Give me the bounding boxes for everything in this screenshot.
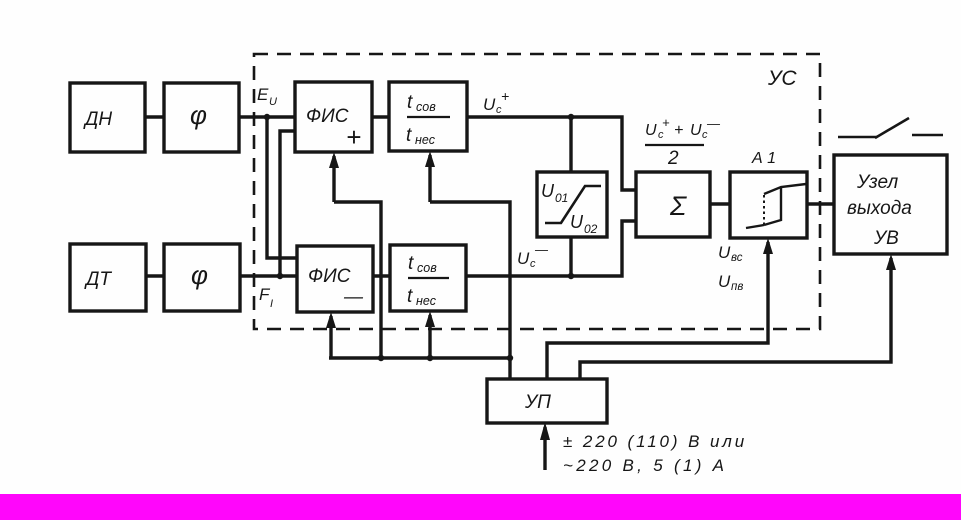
block ДН bbox=[70, 83, 145, 152]
label U_пв bbox=[718, 272, 743, 293]
svg-text:U: U bbox=[269, 96, 277, 108]
node U_c+ tap bbox=[568, 114, 574, 120]
svg-text:U: U bbox=[570, 212, 584, 232]
svg-text:УП: УП bbox=[524, 392, 551, 413]
svg-text:ДТ: ДТ bbox=[84, 269, 112, 290]
svg-text:t: t bbox=[406, 125, 412, 146]
svg-text:ФИС: ФИС bbox=[308, 266, 351, 287]
label U_вс bbox=[718, 243, 743, 264]
svg-text:сов: сов bbox=[416, 100, 436, 114]
svg-text:U: U bbox=[718, 243, 731, 262]
svg-text:А 1: А 1 bbox=[751, 150, 776, 167]
wire U_c- bus bbox=[466, 221, 636, 276]
svg-text:с: с bbox=[496, 104, 502, 116]
node bus-riser junction bbox=[378, 355, 384, 361]
svg-text:Σ: Σ bbox=[669, 191, 687, 221]
svg-text:+: + bbox=[501, 88, 509, 104]
node F_I junction bbox=[277, 273, 283, 279]
block Σ summator bbox=[636, 172, 710, 237]
wire supply riser to t1 with arrow bbox=[428, 155, 431, 202]
wire ДН-φ1 bbox=[145, 115, 164, 118]
svg-text:+: + bbox=[346, 122, 361, 152]
wire A1 to УВ bbox=[807, 202, 834, 205]
node supply tee bbox=[507, 355, 513, 361]
wire ДТ-φ2 bbox=[146, 274, 164, 277]
svg-text:02: 02 bbox=[584, 222, 598, 236]
svg-text:φ: φ bbox=[191, 260, 208, 290]
svg-text:U: U bbox=[517, 249, 530, 268]
svg-text:U: U bbox=[690, 122, 702, 139]
wire U0 block bottom to U_c- bus bbox=[569, 237, 572, 276]
wire bottom supply bus bbox=[329, 356, 510, 359]
label U_c- bbox=[517, 242, 549, 270]
svg-text:с: с bbox=[530, 258, 536, 270]
svg-text:U: U bbox=[541, 181, 555, 201]
svg-text:вс: вс bbox=[731, 252, 743, 264]
svg-text:УВ: УВ bbox=[873, 228, 899, 249]
svg-text:U: U bbox=[718, 272, 731, 291]
svg-text:—: — bbox=[706, 116, 721, 131]
block φ1 bbox=[164, 83, 239, 152]
label U_c+ bbox=[483, 88, 509, 116]
block A1 hysteresis relay bbox=[730, 172, 807, 238]
label F_I bbox=[259, 285, 273, 310]
block U01/U02 comparator bbox=[537, 172, 607, 237]
svg-text:нес: нес bbox=[415, 133, 436, 147]
block t_сов/t_нес 1 bbox=[389, 82, 467, 151]
label (U_c+ + U_c-)/2 bbox=[645, 115, 721, 169]
svg-text:E: E bbox=[257, 85, 269, 104]
svg-text:—: — bbox=[534, 242, 549, 257]
svg-text:сов: сов bbox=[417, 261, 437, 275]
block ФИС- U2 bbox=[297, 246, 373, 312]
wire F_I rise to ФИС+ lower input bbox=[280, 131, 295, 276]
svg-text:+: + bbox=[662, 115, 670, 130]
wire УП to A1 with arrow bbox=[547, 242, 768, 379]
wire F_I: φ2 to ФИС- bbox=[240, 274, 297, 277]
wire supply riser to t2 with arrow bbox=[428, 315, 431, 358]
label E_U bbox=[257, 85, 277, 108]
svg-text:t: t bbox=[407, 286, 413, 307]
block t_сов/t_нес 2 bbox=[390, 245, 466, 311]
wire U_c+ bus bbox=[467, 117, 636, 190]
dashed enclosure УС bbox=[254, 54, 820, 329]
wire supply run ФИС+ branch bbox=[334, 202, 381, 358]
wire supply riser to ФИС+ with arrow bbox=[332, 156, 335, 202]
svg-text:~220 В, 5 (1) А: ~220 В, 5 (1) А bbox=[563, 456, 727, 475]
svg-text:± 220 (110) В или: ± 220 (110) В или bbox=[563, 432, 747, 451]
block ДТ bbox=[70, 244, 146, 311]
svg-text:выхода: выхода bbox=[847, 198, 912, 219]
svg-text:ДН: ДН bbox=[83, 109, 112, 130]
block УП power unit bbox=[487, 379, 607, 423]
block φ2 bbox=[164, 244, 240, 311]
svg-text:2: 2 bbox=[667, 148, 679, 169]
svg-text:УС: УС bbox=[767, 67, 797, 90]
svg-text:ФИС: ФИС bbox=[306, 106, 349, 127]
wire E_U: φ1 to ФИС+ bbox=[239, 115, 295, 118]
wire ФИС- to t2 bbox=[373, 274, 390, 277]
wire supply riser to ФИС- with arrow bbox=[329, 316, 332, 358]
svg-text:U: U bbox=[645, 122, 657, 139]
block УВ output node bbox=[834, 155, 947, 254]
svg-text:пв: пв bbox=[731, 281, 743, 293]
block ФИС+ U1 bbox=[295, 82, 372, 152]
svg-text:нес: нес bbox=[416, 294, 437, 308]
magenta footer bar bbox=[0, 494, 961, 520]
svg-text:—: — bbox=[343, 287, 364, 308]
svg-text:Узел: Узел bbox=[856, 172, 898, 193]
wire tap to U0 block top bbox=[569, 117, 572, 172]
svg-text:t: t bbox=[407, 92, 413, 113]
svg-text:φ: φ bbox=[190, 100, 207, 130]
svg-text:+: + bbox=[674, 122, 683, 139]
svg-text:t: t bbox=[408, 253, 414, 274]
wire УП to УВ with arrow bbox=[580, 258, 891, 379]
node bus-riser junction 2 bbox=[427, 355, 433, 361]
wire ФИС+ to t1 bbox=[372, 115, 389, 118]
wire power input to УП with arrow bbox=[543, 427, 546, 470]
svg-text:I: I bbox=[270, 298, 273, 310]
svg-text:с: с bbox=[658, 129, 664, 141]
svg-text:01: 01 bbox=[555, 191, 568, 205]
switch contact symbol bbox=[838, 118, 943, 138]
node E_U junction bbox=[264, 114, 270, 120]
svg-text:U: U bbox=[483, 95, 496, 114]
wire supply run t1 branch down to УП bbox=[430, 202, 510, 379]
node U_c- tap bbox=[568, 273, 574, 279]
wire E_U drop to ФИС- upper input bbox=[267, 117, 297, 258]
wire Σ to A1 bbox=[710, 202, 730, 205]
